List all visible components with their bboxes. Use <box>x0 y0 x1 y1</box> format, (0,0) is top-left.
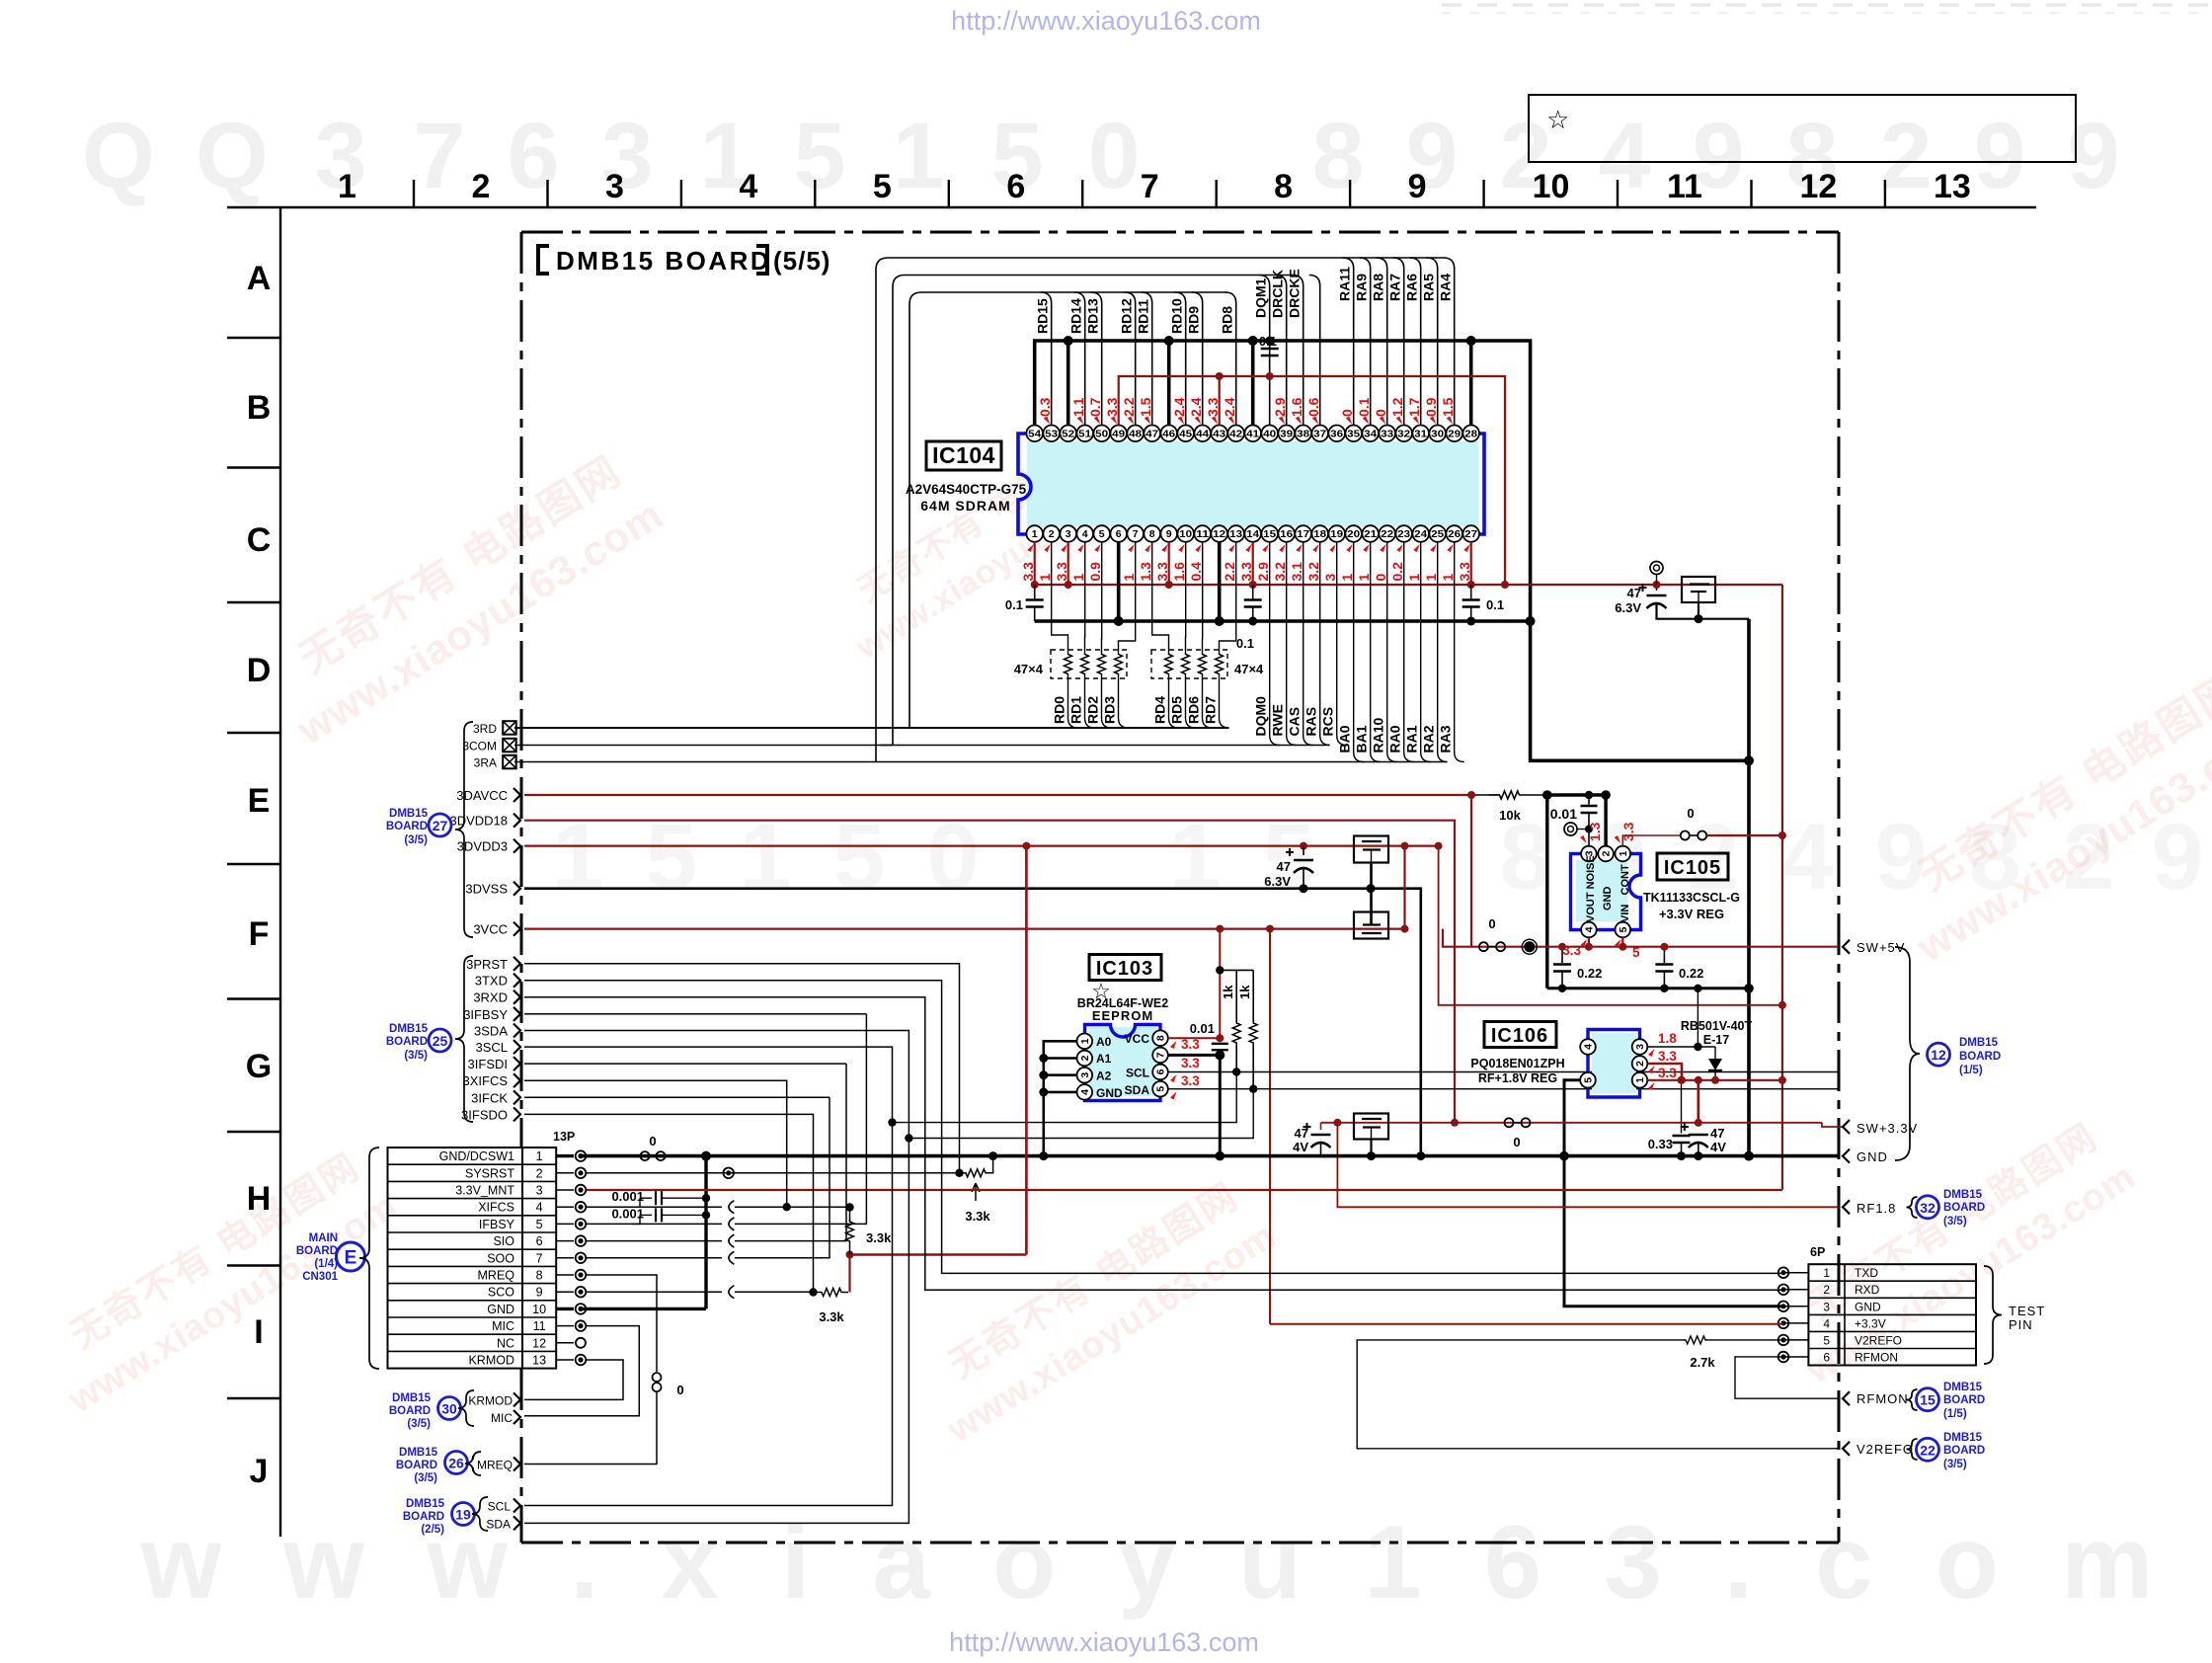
svg-text:GND: GND <box>1856 1149 1888 1164</box>
svg-text:DMB15: DMB15 <box>1943 1189 1983 1201</box>
svg-text:MIC: MIC <box>491 1411 513 1425</box>
IC103 SDA wire <box>1168 1088 1840 1090</box>
svg-text:15: 15 <box>1263 528 1276 540</box>
svg-text:5: 5 <box>1823 1333 1830 1347</box>
svg-text:MIC: MIC <box>492 1319 514 1333</box>
wire IC104 to resistor RD1 <box>1084 542 1086 654</box>
svg-text:(3/5): (3/5) <box>404 1050 428 1062</box>
svg-text:6: 6 <box>1116 528 1122 540</box>
svg-text:10: 10 <box>1533 168 1570 205</box>
wire 3DAVCC <box>524 794 1471 796</box>
wire IC104 pin 9 red to 3.3V bus <box>1168 542 1170 585</box>
bus 3COM horizontal top <box>905 275 1294 277</box>
C hooks <box>729 1201 735 1214</box>
svg-text:MREQ: MREQ <box>478 1269 515 1283</box>
svg-text:(5/5): (5/5) <box>773 246 830 276</box>
wire IC104 pin 18 to RAS <box>1320 542 1330 746</box>
svg-text:3TXD: 3TXD <box>475 974 508 989</box>
svg-text:C: C <box>247 521 272 559</box>
wire KRMOD pin13 <box>524 1360 623 1399</box>
svg-text:RA5: RA5 <box>1421 274 1437 301</box>
IC104 pin 31 <box>1412 426 1429 442</box>
gnd exit <box>1843 1149 1850 1163</box>
svg-text:3VCC: 3VCC <box>473 922 508 937</box>
svg-text:41: 41 <box>1246 428 1259 439</box>
wire IC104 pin 27 red to 3.3V bus <box>1470 542 1472 585</box>
svg-text:0: 0 <box>1088 104 1141 208</box>
IC104 pin 48 <box>1127 426 1144 442</box>
svg-text:SCL: SCL <box>1126 1067 1149 1080</box>
svg-text:1: 1 <box>338 168 356 205</box>
svg-text:XIFCS: XIFCS <box>478 1201 514 1215</box>
svg-text:10k: 10k <box>1499 808 1521 823</box>
resistor 47ohm RD5 <box>1182 654 1190 674</box>
svg-text:GND: GND <box>1096 1086 1123 1100</box>
svg-text:V2REFO: V2REFO <box>1855 1333 1902 1347</box>
connector 3IFSDI <box>513 1057 520 1070</box>
wire RA6 to IC104 pin 31 <box>1410 258 1421 426</box>
capacitor 0.1 mid below IC104 <box>1252 585 1254 599</box>
wire IC104 pin 28 to top bus <box>1469 341 1473 426</box>
svg-text:http://www.xiaoyu163.com: http://www.xiaoyu163.com <box>951 6 1261 36</box>
wire IC104 pin 17 to CAS <box>1303 542 1313 746</box>
svg-text:RF+1.8V REG: RF+1.8V REG <box>1478 1071 1557 1085</box>
svg-text:0: 0 <box>1373 574 1388 582</box>
faint dash rows top right <box>1442 3 2210 7</box>
svg-text:CN301: CN301 <box>302 1271 338 1283</box>
cap 0.001 row 4 <box>632 1198 640 1207</box>
wire IC104 pin 23 to RA0 <box>1404 542 1414 762</box>
wire IC104 pin 16 to RWE <box>1287 542 1297 746</box>
svg-text:35: 35 <box>1347 428 1360 439</box>
wire RA5 to IC104 pin 30 <box>1427 258 1438 426</box>
red vcc branch right <box>1269 929 1271 1324</box>
IC104 pin 47 <box>1144 426 1160 442</box>
svg-text:NC: NC <box>497 1336 514 1350</box>
svg-text:VOUT NOISE: VOUT NOISE <box>1585 855 1597 922</box>
svg-text:DMB15: DMB15 <box>389 808 429 820</box>
svg-text:3.3: 3.3 <box>1658 1049 1677 1064</box>
wire IC106 pin1 red rail <box>1647 1079 1782 1081</box>
svg-text:9: 9 <box>1166 528 1172 540</box>
svg-text:4: 4 <box>739 168 757 205</box>
svg-text:RA3: RA3 <box>1438 725 1454 752</box>
resistor 47ohm RD7 <box>1216 654 1224 674</box>
svg-text:8: 8 <box>1149 528 1155 540</box>
svg-text:1: 1 <box>1406 574 1422 582</box>
svg-text:(2/5): (2/5) <box>421 1524 444 1536</box>
svg-text:(1/5): (1/5) <box>1959 1065 1983 1076</box>
connector 3IFCK <box>513 1090 520 1104</box>
svg-text:A: A <box>247 260 272 297</box>
connector SW+3.3V <box>1843 1120 1850 1134</box>
wire RD15 to IC104 pin 53 <box>1041 292 1052 426</box>
brace group 27 <box>455 722 473 937</box>
resistor 47ohm RD0 <box>1065 654 1072 674</box>
ruler column ticks <box>413 180 415 207</box>
wire IC104 pin 15 to DQM0 <box>1270 542 1280 746</box>
svg-text:Q: Q <box>196 104 269 208</box>
wire IC104 to resistor RD6 <box>1202 542 1204 654</box>
wire SYSRST <box>587 1172 960 1174</box>
wire V2REFO path <box>1706 1339 1783 1341</box>
resistor pack 47x4 right box <box>1151 650 1227 678</box>
wire 3IFSDO to SCO <box>524 1114 814 1292</box>
svg-text:DMB15: DMB15 <box>1959 1037 1999 1049</box>
bus 3RD vertical left loop <box>898 292 921 728</box>
svg-text:5: 5 <box>1618 926 1629 932</box>
bus 3COM lower horizontal <box>514 745 1329 747</box>
feedthrough box on RF rail <box>1354 1114 1388 1140</box>
svg-text:BOARD: BOARD <box>386 821 428 832</box>
svg-text:DMB15: DMB15 <box>1943 1382 1983 1393</box>
bus 3RA vertical left loop <box>876 258 888 762</box>
IC104 pin 14 <box>1244 525 1261 542</box>
svg-text:SCL: SCL <box>488 1500 512 1514</box>
IC104 pin 54 <box>1026 426 1043 442</box>
pullup 3.3k on SCO <box>815 1289 848 1297</box>
svg-text:0: 0 <box>1513 1135 1520 1149</box>
svg-text:22: 22 <box>1920 1442 1935 1458</box>
svg-text:54: 54 <box>1028 428 1041 439</box>
svg-text:RA0: RA0 <box>1387 725 1403 752</box>
wire RD8 to IC104 pin 42 <box>1225 292 1236 426</box>
svg-text:46: 46 <box>1162 428 1175 439</box>
svg-text:TXD: TXD <box>1855 1266 1878 1280</box>
svg-text:3: 3 <box>1823 1300 1830 1313</box>
svg-text:1.8: 1.8 <box>1658 1031 1677 1046</box>
wire 3DVDD3 <box>524 844 1439 846</box>
svg-text:28: 28 <box>1464 428 1477 439</box>
svg-text:4: 4 <box>1583 1044 1595 1050</box>
svg-text:7: 7 <box>536 1251 543 1265</box>
IC104 pin 37 <box>1311 426 1328 442</box>
svg-text:8: 8 <box>1155 1035 1167 1041</box>
svg-text:3IFSDI: 3IFSDI <box>468 1057 508 1071</box>
svg-text:3.3: 3.3 <box>1181 1073 1200 1088</box>
IC104 pin 42 <box>1227 426 1244 442</box>
IC104 pin 5 <box>1093 525 1110 542</box>
test pin pads <box>1783 1272 1808 1274</box>
svg-text:8: 8 <box>1274 168 1293 205</box>
svg-text:0.7: 0.7 <box>1087 397 1103 417</box>
row boundary ticks <box>227 337 280 339</box>
svg-text:http://www.xiaoyu163.com: http://www.xiaoyu163.com <box>949 1627 1259 1657</box>
svg-text:12: 12 <box>532 1336 546 1350</box>
wire MREQ pin8 via jumper <box>587 1275 657 1372</box>
svg-text:RD8: RD8 <box>1220 306 1235 334</box>
svg-text:52: 52 <box>1062 428 1074 439</box>
svg-text:7: 7 <box>1141 168 1159 205</box>
svg-text:KRMOD: KRMOD <box>468 1354 514 1368</box>
wire RA11 to IC104 pin 35 <box>1343 258 1354 426</box>
svg-text:VIN CONT: VIN CONT <box>1619 864 1631 922</box>
svg-text:(3/5): (3/5) <box>407 1418 431 1430</box>
SCL rail to left <box>893 1072 1237 1123</box>
svg-text:15: 15 <box>1920 1392 1935 1408</box>
CN301 pads <box>556 1154 574 1157</box>
svg-text:SCO: SCO <box>488 1286 514 1300</box>
IC104 pin 26 <box>1446 525 1462 542</box>
svg-text:BOARD: BOARD <box>389 1405 431 1417</box>
svg-text:2.4: 2.4 <box>1188 397 1204 417</box>
svg-text:1k: 1k <box>1237 985 1252 999</box>
svg-text:2.4: 2.4 <box>1222 397 1237 417</box>
svg-text:0: 0 <box>676 1383 683 1397</box>
svg-text:36: 36 <box>1330 428 1343 439</box>
IC104 pin 2 <box>1043 525 1060 542</box>
gnd trunk line <box>581 1154 1839 1158</box>
svg-text:Q: Q <box>82 104 155 208</box>
svg-text:31: 31 <box>1414 428 1427 439</box>
svg-text:4: 4 <box>1584 926 1596 932</box>
svg-text:GND: GND <box>487 1303 514 1316</box>
IC103 pin7 gnd <box>1168 1054 1221 1057</box>
svg-text:DMB15: DMB15 <box>399 1447 438 1459</box>
brace group 25 <box>455 956 473 1122</box>
brace CN301 <box>359 1148 379 1369</box>
svg-text:47: 47 <box>1145 428 1158 439</box>
red rail above IC104 <box>1119 376 1505 585</box>
svg-text:0.1: 0.1 <box>1005 597 1023 612</box>
IC104 pin 17 <box>1295 525 1311 542</box>
IC104 pin 38 <box>1295 426 1311 442</box>
thin drop to 0.33 <box>1681 1080 1683 1134</box>
svg-text:6: 6 <box>536 1234 543 1248</box>
wire RFMON path <box>1735 1357 1839 1398</box>
IC104 pin 43 <box>1211 426 1227 442</box>
IC104 pin 13 <box>1227 525 1244 542</box>
wire IC104 pin 6 to gnd bus <box>1117 542 1121 621</box>
svg-text:4: 4 <box>1079 1089 1091 1095</box>
gnd path IC105 left <box>1531 794 1547 796</box>
svg-text:4V: 4V <box>1710 1140 1726 1154</box>
svg-text:KRMOD: KRMOD <box>468 1393 513 1407</box>
bus 3RD horizontal top <box>921 291 1226 293</box>
red drop to caps row <box>1698 1080 1700 1123</box>
wire 3VCC drop to SW+5V rail <box>1443 929 1476 947</box>
IC104 body <box>1027 441 1478 526</box>
IC104 pin 6 <box>1110 525 1127 542</box>
gnd line below IC105 <box>1547 987 1749 990</box>
svg-text:BOARD: BOARD <box>1959 1051 2001 1063</box>
svg-text:RA7: RA7 <box>1387 274 1403 301</box>
IC103 pins left <box>1077 1034 1093 1050</box>
svg-text:1.3: 1.3 <box>1138 562 1153 582</box>
svg-text:1.6: 1.6 <box>1289 397 1304 417</box>
IC104 pin 27 <box>1462 525 1479 542</box>
IC104 pin 18 <box>1311 525 1328 542</box>
svg-text:EEPROM: EEPROM <box>1092 1008 1153 1023</box>
svg-text:A2V64S40CTP-G75: A2V64S40CTP-G75 <box>906 482 1027 497</box>
svg-text:DMB15 BOARD: DMB15 BOARD <box>556 246 771 276</box>
svg-text:12: 12 <box>1931 1047 1946 1063</box>
wire RD14 to IC104 pin 51 <box>1074 292 1085 426</box>
svg-text:47×4: 47×4 <box>1014 662 1044 676</box>
wire 3VCC to IC103 VCC <box>1168 1037 1221 1039</box>
svg-text:48: 48 <box>1129 428 1142 439</box>
svg-text:D: D <box>247 652 272 689</box>
svg-text:BOARD: BOARD <box>1943 1202 1985 1214</box>
wire 3IFBSY <box>524 1013 866 1015</box>
cap 47 6.3V at top right <box>1656 585 1658 591</box>
svg-text:12: 12 <box>1213 528 1225 540</box>
svg-text:IC104: IC104 <box>932 442 995 468</box>
cap 0.001 row 5 <box>632 1215 640 1224</box>
svg-text:RA11: RA11 <box>1337 267 1353 301</box>
svg-text:11: 11 <box>533 1319 546 1333</box>
wire 3IFCK <box>524 1096 829 1098</box>
svg-text:GND/DCSW1: GND/DCSW1 <box>439 1149 514 1163</box>
wire IC104 pin 12 to gnd bus <box>1218 542 1222 621</box>
svg-text:B: B <box>247 389 272 427</box>
svg-text:0: 0 <box>1488 916 1495 931</box>
wire RA9 to IC104 pin 34 <box>1360 258 1371 426</box>
svg-text:RA6: RA6 <box>1404 274 1420 301</box>
svg-text:DMB15: DMB15 <box>392 1392 432 1404</box>
svg-text:0.9: 0.9 <box>1087 562 1103 582</box>
svg-text:0.01: 0.01 <box>1190 1021 1215 1036</box>
svg-text:0: 0 <box>1687 806 1694 821</box>
svg-text:0.1: 0.1 <box>1259 334 1277 349</box>
svg-text:9: 9 <box>1408 168 1427 205</box>
bus 3RD lower horizontal <box>514 727 1229 729</box>
connector 3DVSS <box>513 882 520 896</box>
svg-text:TK11133CSCL-G: TK11133CSCL-G <box>1643 891 1740 905</box>
wire 3TXD to test pin <box>524 981 1783 1274</box>
red pullup rail drop <box>1025 846 1028 1255</box>
resistor 10k <box>1489 791 1531 799</box>
capacitor 0.1 top <box>1269 341 1271 348</box>
row axis vertical line <box>279 207 281 1537</box>
test pin table <box>1808 1264 1976 1365</box>
wire + label RD0 <box>1068 674 1078 728</box>
svg-text:(1/4): (1/4) <box>314 1258 338 1270</box>
svg-text:DRCKE: DRCKE <box>1287 269 1303 318</box>
svg-text:BOARD: BOARD <box>396 1460 437 1471</box>
svg-text:0: 0 <box>649 1134 656 1148</box>
black bus below IC104 <box>1035 619 1531 623</box>
svg-text:RCS: RCS <box>1320 707 1336 737</box>
wire DQM1 to IC104 pin 40 <box>1259 276 1270 426</box>
svg-text:VCC: VCC <box>1125 1032 1150 1046</box>
svg-text:V2REFO: V2REFO <box>1856 1442 1914 1457</box>
svg-text:3.3k: 3.3k <box>819 1309 844 1324</box>
svg-text:MAIN: MAIN <box>309 1232 338 1244</box>
svg-text:DQM0: DQM0 <box>1253 696 1269 737</box>
pullup 3.3k XIFCS to rail <box>849 1208 851 1223</box>
note box with star <box>1529 95 2076 162</box>
svg-text:1: 1 <box>1079 1038 1091 1044</box>
wire RD13 to IC104 pin 50 <box>1091 292 1102 426</box>
svg-text:53: 53 <box>1045 428 1058 439</box>
svg-text:J: J <box>250 1453 269 1490</box>
svg-text:2.7k: 2.7k <box>1690 1355 1715 1370</box>
svg-text:1: 1 <box>536 1149 543 1163</box>
svg-text:BOARD: BOARD <box>296 1245 338 1257</box>
svg-text:45: 45 <box>1179 428 1192 439</box>
svg-text:4: 4 <box>536 1201 543 1215</box>
svg-text:1: 1 <box>1032 528 1038 540</box>
svg-text:3: 3 <box>1066 528 1071 540</box>
svg-text:RD5: RD5 <box>1169 696 1185 724</box>
svg-text:CAS: CAS <box>1287 707 1303 737</box>
wire 3VCC <box>524 927 1405 929</box>
svg-text:1: 1 <box>893 104 945 208</box>
IC104 pin 15 <box>1261 525 1278 542</box>
svg-text:BOARD: BOARD <box>403 1511 444 1523</box>
wire SCO <box>587 1291 722 1293</box>
IC104 pin 52 <box>1060 426 1076 442</box>
wire + label RD3 <box>1119 674 1129 728</box>
IC104 pin 40 <box>1261 426 1278 442</box>
svg-text:BA0: BA0 <box>1337 725 1353 752</box>
IC104 pin 4 <box>1076 525 1093 542</box>
IC104 pin 23 <box>1395 525 1412 542</box>
svg-text:38: 38 <box>1297 428 1309 439</box>
resistor 47ohm RD2 <box>1098 654 1106 674</box>
wire IC104 pin 37 to 3COM bus <box>1309 276 1320 426</box>
IC104 pin 32 <box>1395 426 1412 442</box>
svg-text:1: 1 <box>1423 574 1439 582</box>
watermark diagonal pink stamps <box>257 440 671 753</box>
svg-text:(3/5): (3/5) <box>414 1472 437 1484</box>
svg-text:RD11: RD11 <box>1136 299 1151 334</box>
svg-text:12: 12 <box>1799 168 1837 205</box>
svg-text:0.33: 0.33 <box>1648 1137 1673 1151</box>
svg-text:(3/5): (3/5) <box>404 834 428 846</box>
svg-text:7: 7 <box>414 104 466 208</box>
wire 3DAVCC to 10k <box>1471 794 1500 796</box>
svg-text:SYSRST: SYSRST <box>465 1166 514 1180</box>
IC104 pin 19 <box>1328 525 1345 542</box>
IC104 label box <box>926 441 1001 470</box>
svg-text:49: 49 <box>1112 428 1125 439</box>
svg-text:64M SDRAM: 64M SDRAM <box>920 498 1010 514</box>
svg-text:3DVSS: 3DVSS <box>465 882 508 897</box>
wire 3IFSDI <box>524 1063 846 1065</box>
wire + label RD2 <box>1102 674 1112 728</box>
svg-text:PIN: PIN <box>2009 1317 2033 1332</box>
IC104 pin 44 <box>1194 426 1211 442</box>
svg-text:1.3: 1.3 <box>1587 822 1603 841</box>
resistor 1k left <box>1235 970 1237 1022</box>
svg-text:20: 20 <box>1347 528 1360 540</box>
connector 3PRST <box>513 957 520 971</box>
svg-text:0.1: 0.1 <box>1236 636 1254 651</box>
IC104 pin 11 <box>1194 525 1211 542</box>
svg-text:3RD: 3RD <box>473 722 497 736</box>
test point at IC105 pin3 <box>1564 823 1577 835</box>
svg-text:19: 19 <box>455 1507 471 1523</box>
RF 1.8 rail <box>1321 1122 1823 1124</box>
svg-text:MREQ: MREQ <box>477 1459 513 1472</box>
blue ref 32 <box>1907 1197 1918 1218</box>
svg-text:1: 1 <box>1440 574 1456 582</box>
svg-text:3RXD: 3RXD <box>473 990 508 1005</box>
jumper 0 on SW+5V <box>1479 942 1488 951</box>
svg-text:3.2: 3.2 <box>1305 562 1321 582</box>
connector CN301 table <box>388 1148 557 1369</box>
svg-text:TEST: TEST <box>2009 1304 2045 1318</box>
svg-text:SOO: SOO <box>487 1251 514 1265</box>
svg-text:4: 4 <box>1599 104 1651 208</box>
connector 3TXD <box>513 974 520 988</box>
svg-text:DRCLK: DRCLK <box>1270 270 1286 318</box>
svg-text:14: 14 <box>1246 528 1259 540</box>
svg-text:BA1: BA1 <box>1354 725 1370 752</box>
svg-text:RF1.8: RF1.8 <box>1856 1201 1896 1216</box>
